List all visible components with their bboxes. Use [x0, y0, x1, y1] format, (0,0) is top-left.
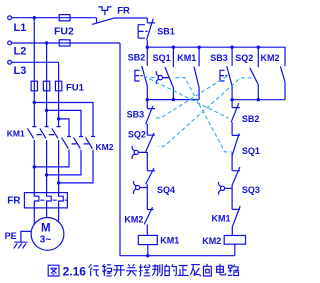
contactor KM2 main contact pole2	[47, 137, 83, 175]
wire tap phase2 to KM2 pole2	[47, 110, 81, 136]
svg-text:KM1: KM1	[177, 53, 196, 63]
node top bus SB3	[230, 46, 233, 49]
svg-text:KM2: KM2	[261, 53, 280, 63]
wire L1 horizontal	[12, 18, 97, 24]
node KM1/KM2 output merge pole1	[33, 165, 36, 168]
svg-text:3~: 3~	[40, 234, 52, 245]
svg-text:L3: L3	[14, 65, 27, 77]
node L1-phase1 junction	[33, 16, 36, 19]
limit switch SQ1 NC contact	[232, 133, 240, 170]
svg-text:L2: L2	[14, 45, 27, 57]
right mid bus	[232, 99, 285, 101]
wire phase1 vertical	[33, 18, 35, 127]
limit switch SQ2 NC contact	[146, 133, 155, 171]
svg-text:KM1: KM1	[7, 128, 25, 138]
svg-text:FU1: FU1	[66, 82, 85, 93]
node mid bus left1	[146, 98, 149, 101]
FR heater element pole3	[59, 193, 64, 208]
wire tap phase1 to KM2 pole3	[34, 103, 93, 137]
svg-text:SQ1: SQ1	[242, 146, 260, 156]
svg-text:M: M	[41, 223, 51, 235]
limit switch SQ2 NO contact	[250, 47, 258, 99]
wire phase2 vertical	[46, 43, 48, 127]
contactor KM2 main contact pole1	[34, 137, 71, 167]
fuse FU1 pole3	[55, 81, 61, 91]
terminal L3	[8, 60, 12, 64]
left mid bus	[147, 99, 199, 101]
svg-text:SQ4: SQ4	[157, 185, 175, 195]
node mid bus left2	[172, 98, 175, 101]
node phase2 KM2 tap	[45, 109, 48, 112]
SQ4 roller	[136, 185, 140, 189]
SB2 actuator dashed link	[140, 75, 144, 77]
svg-text:FR: FR	[117, 6, 130, 17]
thermal relay FR NC contact	[92, 7, 147, 25]
svg-text:L1: L1	[14, 22, 27, 34]
KM1 mechanical link dashes	[37, 134, 55, 136]
mechanical link SQ1 dashed	[175, 78, 231, 152]
terminal L1	[8, 16, 12, 20]
thermal relay FR heater box	[24, 193, 67, 208]
contactor KM1 NC interlock contact	[232, 206, 240, 235]
node top bus SQ1	[172, 46, 175, 49]
svg-text:SB3: SB3	[127, 109, 145, 119]
wire KM1 coil to bottom bus	[147, 245, 149, 256]
wire tap phase3 to KM2 pole1	[59, 119, 69, 137]
wire L2 horizontal	[12, 42, 120, 44]
contactor KM1 main contact pole2	[40, 127, 49, 175]
svg-text:FU2: FU2	[54, 25, 74, 37]
ground symbol	[14, 242, 28, 248]
SQ2 roller	[134, 150, 138, 154]
limit switch SQ1 NO contact	[165, 47, 174, 99]
SB3 actuator dashed link	[225, 75, 229, 77]
SQ1 left dash	[151, 77, 157, 79]
svg-text:KM2: KM2	[96, 142, 114, 152]
wire L3 horizontal	[12, 61, 59, 63]
svg-text:KM2: KM2	[124, 214, 143, 224]
control top bus	[147, 47, 285, 66]
wire merge nodes down to FR	[34, 167, 58, 193]
contactor KM1 NO self-hold contact	[194, 47, 199, 99]
svg-text:KM1: KM1	[212, 213, 231, 223]
pushbutton SB3 NO contact	[227, 47, 232, 99]
wire L2 rail down and bottom bus	[120, 43, 235, 256]
pushbutton SB3 NC contact	[146, 100, 155, 136]
node mid bus right2	[257, 98, 260, 101]
SB2 actuator	[135, 70, 140, 81]
PE wire	[21, 231, 31, 242]
SQ1 roller	[158, 75, 162, 79]
fuse FU2a	[59, 15, 70, 21]
svg-text:SQ1: SQ1	[153, 53, 171, 63]
coil KM1	[138, 235, 157, 244]
contactor KM1 main contact pole3	[52, 127, 61, 183]
pushbutton SB1 NC stop	[147, 18, 156, 47]
fuse FU1 pole1	[31, 81, 37, 91]
svg-text:SB3: SB3	[210, 53, 228, 63]
coil KM2	[224, 236, 245, 245]
fuse FU1 pole2	[43, 81, 49, 91]
node phase1 KM2 tap	[33, 101, 36, 104]
node top bus SQ2	[257, 46, 260, 49]
svg-text:SQ3: SQ3	[242, 185, 260, 195]
mechanical link SB2 dashed	[144, 76, 229, 118]
SQ3 roller	[221, 186, 225, 190]
contactor KM1 main contact pole1	[28, 127, 37, 167]
node top bus SB2	[146, 46, 149, 49]
wires FR to motor	[34, 208, 58, 224]
contactor KM2 main contact pole3	[59, 137, 95, 183]
FR heater link dashes	[41, 199, 68, 201]
wire KM2 coil to bottom bus	[234, 244, 236, 256]
fuse FU2b	[59, 40, 70, 46]
SB1 actuator dashed link	[145, 30, 149, 32]
svg-text:PE: PE	[5, 231, 17, 241]
mechanical link SB3 dashed	[155, 76, 227, 118]
FR heater element pole2	[47, 193, 52, 208]
node KM1/KM2 output merge pole2	[45, 173, 48, 176]
svg-text:SQ2: SQ2	[235, 53, 253, 63]
wire phase3 vertical	[58, 62, 60, 126]
contactor KM2 NC interlock contact	[144, 207, 153, 235]
FR heater element pole1	[34, 193, 39, 208]
node phase3 KM2 tap	[57, 117, 60, 120]
svg-text:SQ2: SQ2	[128, 129, 146, 139]
motor M circle	[31, 218, 64, 251]
caption 图2.16 行程开关控制的正反向电路	[48, 265, 59, 276]
SB3 actuator	[220, 70, 225, 81]
pushbutton SB2 NO contact	[142, 47, 148, 99]
terminal L2	[8, 41, 12, 45]
node mid bus right1	[230, 98, 233, 101]
svg-text:FR: FR	[7, 195, 21, 206]
pushbutton SB2 NC contact	[231, 100, 240, 136]
svg-text:KM2: KM2	[202, 236, 221, 246]
svg-text:KM1: KM1	[160, 235, 179, 245]
node top bus KM1	[197, 46, 200, 49]
svg-text:SB2: SB2	[242, 114, 260, 124]
limit switch SQ4 NC contact	[146, 168, 156, 210]
node bottom bus KM1	[146, 254, 149, 257]
KM2 mechanical link dashes	[72, 143, 89, 145]
contactor KM2 NO self-hold contact	[280, 66, 285, 99]
svg-text:2.16: 2.16	[63, 264, 87, 278]
svg-text:SB2: SB2	[128, 52, 146, 62]
node KM1/KM2 output merge pole3	[57, 181, 60, 184]
svg-text:SB1: SB1	[157, 26, 175, 36]
mechanical link SQ2 dashed	[158, 78, 251, 147]
limit switch SQ3 NC contact	[232, 167, 240, 209]
SB1 actuator	[138, 25, 145, 39]
node L2-phase2 junction	[45, 41, 48, 44]
